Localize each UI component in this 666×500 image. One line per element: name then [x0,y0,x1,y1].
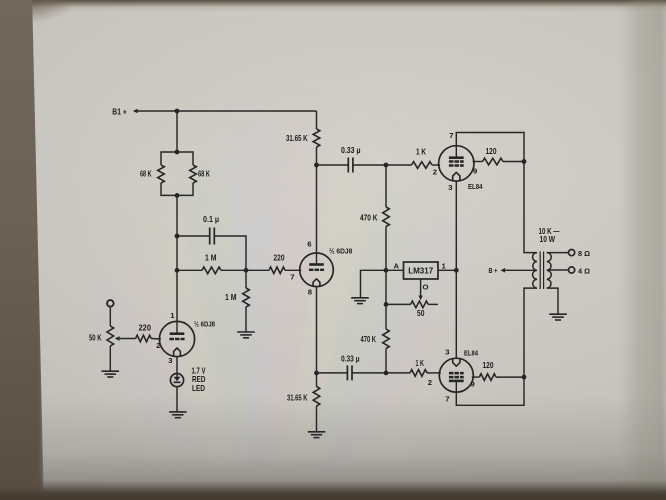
label 10K 10W [539,227,561,244]
wire 1M left lead [177,269,202,271]
wire 50K to ground [109,346,111,371]
svg-text:4 Ω: 4 Ω [578,266,590,275]
terminal input jack [107,300,114,307]
wire 31.65K to node [316,147,318,165]
pin label O LM317 [423,282,429,291]
junction LM317 A node [384,268,389,273]
wire 1M to 220 [221,269,246,271]
svg-text:68 K: 68 K [198,169,210,178]
pin label 1 lower 6DJ8 [170,311,175,320]
wire plate feed lower 6DJ8 [176,270,178,321]
svg-text:0.1 µ: 0.1 µ [203,215,219,224]
svg-text:EL84: EL84 [468,182,483,191]
wire LM317 O lead [420,279,422,296]
svg-text:A: A [393,262,399,271]
svg-text:3: 3 [168,356,172,365]
label EL84 lower [464,348,479,357]
pin label 8 upper 6DJ8 [308,288,313,297]
junction cathode node [314,371,319,376]
capacitor 0.33u upper [348,158,353,173]
terminal arrow B1+ [133,109,138,114]
terminal arrow B+ [501,268,506,273]
label 1/2 6DJ8 upper [329,246,353,255]
resistor 120 lower [479,374,496,381]
wire A node to ground stub [361,270,387,298]
pin label 2 lower 6DJ8 [156,341,160,350]
svg-text:½ 6DJ8: ½ 6DJ8 [194,319,216,328]
pin label A LM317 [393,262,399,271]
svg-text:3: 3 [445,347,449,356]
transformer core [540,252,543,290]
label 0.1u [203,215,219,224]
svg-text:220: 220 [274,254,285,263]
svg-text:470 K: 470 K [361,335,377,344]
label 0.33u lower [341,354,360,363]
terminal 4 ohm [569,267,575,273]
wire cathode upper 6DJ8 [316,287,318,373]
label 1/2 6DJ8 lower [194,319,216,328]
ground LM317 A [351,298,369,304]
wire secondary 4ohm tap [547,269,569,271]
wire node to 1K lower [386,372,410,374]
svg-text:7: 7 [449,131,453,140]
wire 0.33u lower right lead [352,372,386,374]
resistor 31.65K upper [313,129,320,147]
wire primary bottom to lower node [524,288,537,377]
junction 1M-220 node [244,268,249,273]
svg-text:470 K: 470 K [360,213,378,222]
resistor 1M horizontal [202,267,221,274]
svg-text:31.65 K: 31.65 K [286,134,308,143]
resistor 470K upper [383,207,390,227]
wire input to 50K [109,307,111,326]
wire A node to LM317 [386,269,404,271]
label 470K upper [360,213,378,222]
junction grid node lower 6DJ8 [175,268,180,273]
wire lower EL84 pin9 lead [472,376,480,378]
label 1.7V [192,366,206,375]
svg-text:9: 9 [471,379,475,388]
wire pot row left [386,303,411,305]
svg-text:31.65 K: 31.65 K [287,393,308,402]
svg-text:B +: B + [489,266,498,275]
label 1K lower [416,359,425,368]
wire LED to ground [176,387,178,412]
wire 120 lower to node [496,376,524,378]
label RED [192,375,206,384]
pin label 1 LM317 [442,261,447,270]
wire 470K upper to A node [385,227,387,271]
svg-text:0.33 µ: 0.33 µ [341,146,361,155]
junction 68K bottom [175,193,180,198]
wire node to transformer primary top [524,162,537,253]
ground transformer secondary [549,314,567,320]
wire pin7 loop lower [456,377,524,405]
resistor 68K right [190,165,197,183]
wire 220 to 6DJ8 pin2 [151,338,161,341]
tube 1/2 6DJ8 upper U1 [300,253,334,287]
label 120 upper [486,147,497,156]
net label B+ [489,266,498,275]
wire 1M vertical to ground [245,307,247,332]
wire 68K to 0.1u node [176,195,178,236]
wire LM317 out [438,269,456,271]
wire node to 470K upper [385,165,387,207]
svg-text:8: 8 [308,288,313,297]
label 68K right [198,169,210,178]
junction 68K top [175,150,180,155]
ground 1M [237,332,255,338]
wire 1M vertical top lead [245,270,247,288]
wire 120 upper to node [503,161,524,163]
svg-text:2: 2 [428,378,432,387]
label 31.65K lower [287,393,308,402]
wire node to 1K upper [386,164,412,166]
pin label 3 lower EL84 [445,347,449,356]
wire 0.1u left lead [177,235,210,237]
resistor 68K left [158,165,165,183]
tube EL84 upper V1 [439,146,474,181]
wire 470K lower to node [385,349,387,373]
wire 31.65K lower to ground [316,406,318,432]
net label B1+ [112,107,127,116]
wire 0.1u node to 1M node [176,236,178,270]
wire node to 0.33u upper [317,164,349,166]
capacitor 0.1u [210,228,215,245]
pin label 7 lower EL84 [445,394,449,403]
wire rail corner to 31.65K [316,111,318,129]
pin label 7 upper 6DJ8 [290,272,294,281]
resistor 220 upper [269,267,285,274]
wire B1+ rail [137,110,316,112]
svg-text:RED: RED [192,375,206,384]
resistor 1K upper [412,162,433,169]
resistor 120 upper [483,158,504,165]
arrow LM317 O wiper [418,296,422,301]
junction grid node lower EL84 [384,371,389,376]
resistor 1K lower [410,370,427,377]
resistor 470K lower [383,329,390,349]
label 120 lower [483,361,494,370]
svg-text:3: 3 [448,183,452,192]
pin label 9 lower EL84 [471,379,475,388]
junction plate node lower [522,375,527,380]
wire EL84 pin9 lead [473,161,483,163]
pin label 3 upper EL84 [448,183,452,192]
resistor 1M vertical [243,288,250,307]
tube EL84 lower V2 [439,358,473,392]
svg-text:LED: LED [192,384,205,393]
label 68K left [140,169,152,178]
svg-text:2: 2 [156,341,160,350]
wire node to 31.65K lower [316,373,318,387]
label 4 ohm [578,266,590,275]
ground 50K [102,371,120,377]
svg-text:1: 1 [170,311,175,320]
terminal 8 ohm [569,250,575,256]
svg-text:9: 9 [473,166,477,175]
wire node to 0.33u lower [317,372,348,374]
wire 1K to lower EL84 pin2 [427,372,441,374]
resistor 31.65K lower [313,387,320,407]
wire pot row right stub [428,303,438,305]
label 50K [89,333,102,342]
wire wiper to 220 [120,338,136,340]
label 1K upper [416,147,426,156]
junction grid node upper EL84 [384,163,389,168]
label 50 [417,309,425,318]
svg-text:O: O [423,282,429,291]
wire plate feed upper 6DJ8 [316,165,318,253]
junction pot node [384,302,389,307]
ground 31.65K [308,432,325,438]
svg-text:2: 2 [433,167,437,176]
svg-text:220: 220 [139,323,152,332]
wire 6DJ8 cathode to LED [176,357,178,378]
svg-text:1 M: 1 M [225,293,237,302]
label 220 lower [139,323,152,332]
junction cathode bus [454,268,459,273]
svg-text:68 K: 68 K [140,169,152,178]
wire pin7 loop upper [456,133,524,162]
svg-text:120: 120 [483,361,494,370]
svg-text:1: 1 [442,261,447,270]
resistor 50 pot [411,301,429,308]
label 1M horizontal [205,253,217,262]
pin label 2 lower EL84 [428,378,432,387]
label 8 ohm [578,249,590,258]
label EL84 upper [468,182,483,191]
label LED [192,384,205,393]
wire 68K box top [161,152,193,165]
svg-text:EL84: EL84 [464,348,479,357]
junction on B1+ rail [175,109,180,114]
svg-text:7: 7 [290,272,294,281]
label 1M vertical [225,293,237,302]
tube 1/2 6DJ8 lower U1b [159,321,194,356]
junction plate node upper [522,159,527,164]
svg-text:50 K: 50 K [89,333,102,342]
svg-text:8 Ω: 8 Ω [578,249,590,258]
label 220 upper [274,254,285,263]
svg-text:1 K: 1 K [416,147,426,156]
label 0.33u upper [341,146,361,155]
svg-text:120: 120 [486,147,497,156]
ic LM317 U2 [404,262,439,279]
wire B+ to primary center tap [505,269,537,271]
svg-text:7: 7 [445,394,449,403]
resistor 50K pot [107,326,114,346]
transformer secondary winding [547,253,551,289]
led D1 red [170,374,183,387]
wire 220 left lead [246,269,269,271]
pin label 6 [307,239,311,248]
transformer primary winding [533,253,537,289]
svg-text:10 W: 10 W [540,235,556,244]
svg-text:0.33 µ: 0.33 µ [341,354,360,363]
ground LED [169,412,187,418]
wire secondary 8ohm tap [547,252,569,254]
svg-text:50: 50 [417,309,425,318]
svg-text:6: 6 [307,239,311,248]
arrow 50K wiper [115,336,120,341]
wire 1K to EL84 pin2 [432,164,440,166]
wire B1+ to 68K pair [176,111,178,152]
junction 0.1u tee [175,234,180,239]
wire 68K box bottom [161,183,193,195]
wire 0.1u right lead [214,236,246,270]
label 470K lower [361,335,377,344]
wire secondary bottom to ground [547,288,558,314]
pin label 3 lower 6DJ8 [168,356,172,365]
wire 0.33u upper right lead [353,164,386,166]
capacitor 0.33u lower [347,365,352,380]
wire cathode bus [455,181,457,358]
svg-text:½ 6DJ8: ½ 6DJ8 [329,246,353,255]
resistor 220 lower [136,335,152,342]
wire A node to pot node [385,270,387,304]
wire pot node to 470K lower [385,304,387,329]
svg-text:1 M: 1 M [205,253,217,262]
junction plate node upper 6DJ8 [314,163,319,168]
svg-text:LM317: LM317 [408,267,433,276]
pin label 9 upper EL84 [473,166,477,175]
pin label 7 upper EL84 [449,131,453,140]
label 31.65K upper [286,134,308,143]
pin label 2 upper EL84 [433,167,437,176]
svg-text:B1 +: B1 + [112,107,127,116]
wire 220 to 6DJ8 pin7 [285,269,301,271]
svg-text:1 K: 1 K [416,359,425,368]
